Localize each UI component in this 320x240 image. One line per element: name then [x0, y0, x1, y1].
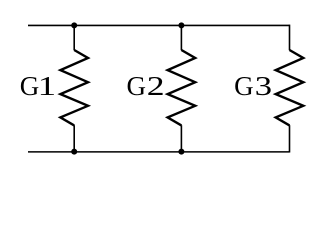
node: junction G1 top	[71, 22, 77, 28]
svg-text:3: 3	[255, 71, 272, 101]
wire G3 top lead	[289, 25, 291, 51]
wire G1 bottom lead	[73, 125, 75, 152]
label G1	[20, 71, 56, 102]
wire G1 top lead	[73, 25, 75, 50]
node: junction G2 top	[178, 22, 184, 28]
wire top bus	[28, 24, 290, 26]
svg-text:2: 2	[147, 71, 165, 101]
svg-text:G: G	[127, 71, 147, 101]
wire G3 bottom lead	[289, 125, 291, 152]
node: junction G1 bottom	[71, 149, 77, 155]
wire G2 top lead	[180, 25, 182, 50]
svg-text:G: G	[234, 71, 254, 101]
svg-text:G: G	[20, 71, 40, 101]
label G2	[127, 71, 165, 101]
wire G2 bottom lead	[180, 125, 182, 152]
resistor G1	[60, 50, 88, 125]
node: junction G2 bottom	[178, 149, 184, 155]
resistor G3	[276, 50, 304, 125]
label G3	[234, 71, 272, 101]
wire bottom bus	[28, 151, 290, 153]
resistor G2	[168, 50, 196, 125]
svg-text:1: 1	[38, 72, 56, 102]
